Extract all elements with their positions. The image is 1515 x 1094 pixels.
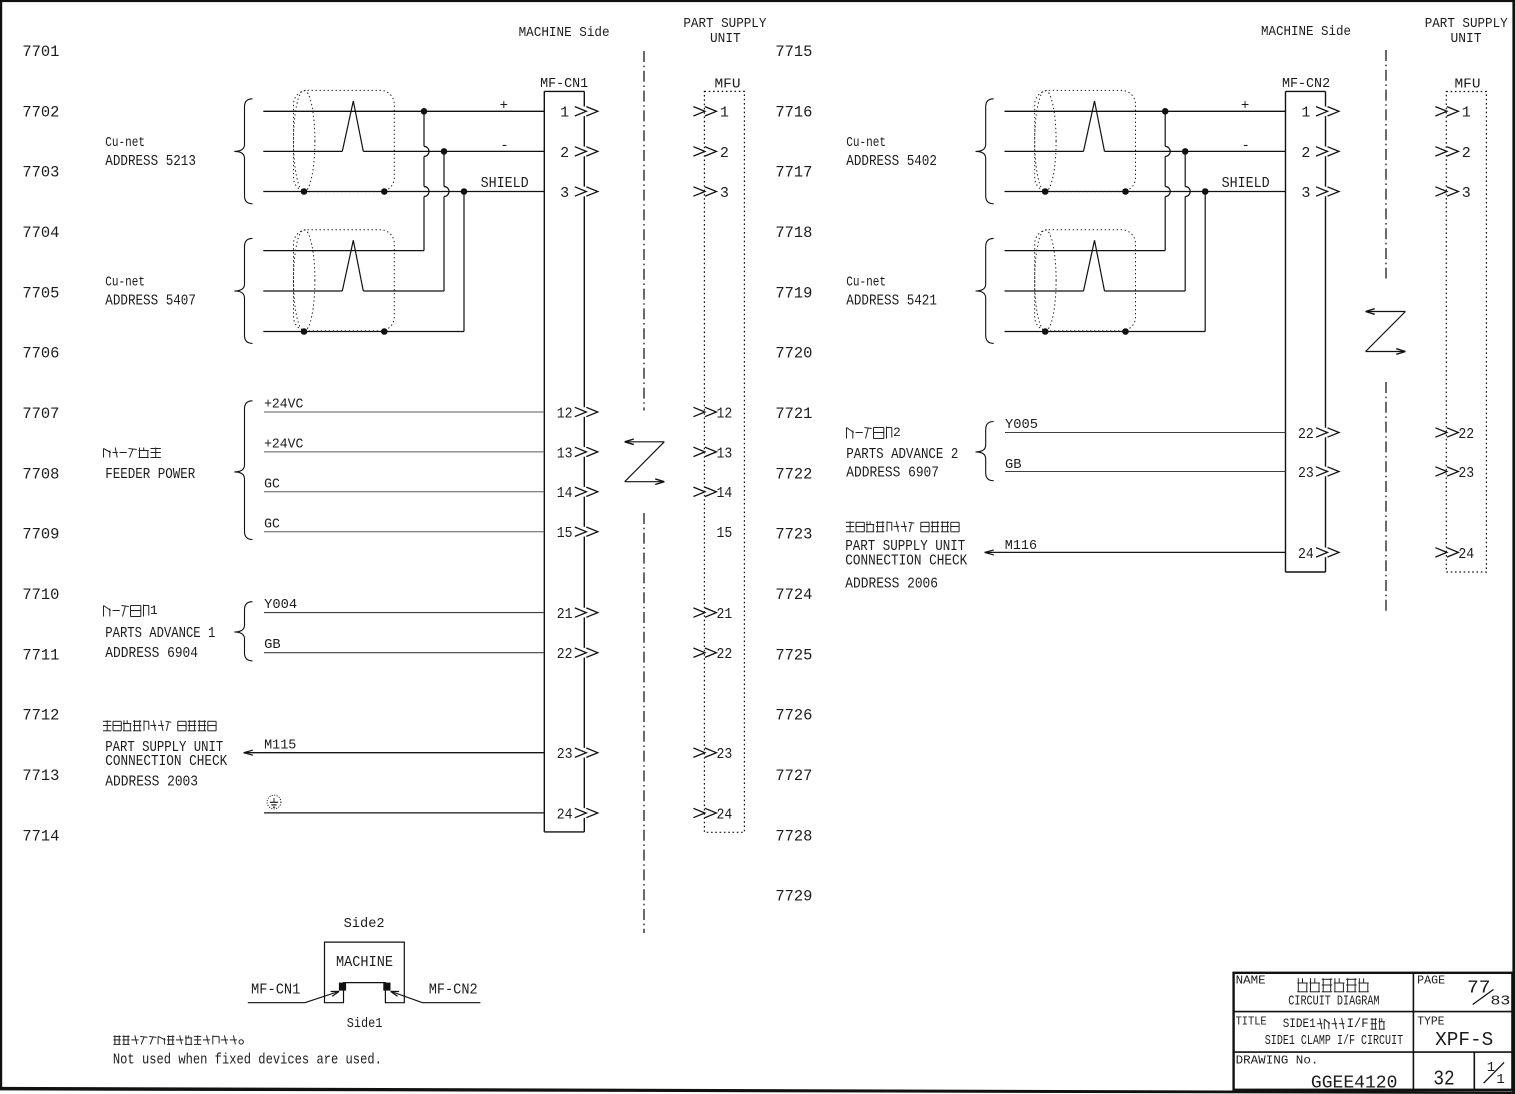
svg-text:I/F: I/F <box>1347 1017 1369 1031</box>
svg-text:22: 22 <box>1298 426 1314 443</box>
svg-text:7704: 7704 <box>22 224 59 242</box>
machine outline sketch <box>325 942 405 1003</box>
twisted-pair symbol of 5402 <box>1084 101 1105 151</box>
title block DRAWING No. <box>1236 1053 1319 1067</box>
label parts advance 1 (jp) <box>104 603 159 618</box>
svg-text:ADDRESS 2003: ADDRESS 2003 <box>105 774 198 790</box>
svg-text:7726: 7726 <box>775 707 812 725</box>
label Cu-net 5213 <box>105 136 196 170</box>
junction dot shield of 5402 <box>1202 188 1209 195</box>
header PART SUPPLY UNIT (right) <box>1425 17 1508 47</box>
MF-CN1 pin 1 <box>560 105 598 122</box>
line-number 7703 <box>22 164 59 182</box>
svg-text:24: 24 <box>557 806 573 823</box>
svg-text:MACHINE: MACHINE <box>336 954 393 971</box>
svg-text:+24VC: +24VC <box>264 397 303 413</box>
svg-text:13: 13 <box>717 445 733 462</box>
svg-text:1: 1 <box>150 603 158 618</box>
line-number 7706 <box>22 345 59 363</box>
title block SIDE1 CLAMP I/F CIRCUIT <box>1265 1033 1403 1049</box>
title block PAGE <box>1417 975 1445 988</box>
svg-text:Not used when fixed devices ar: Not used when fixed devices are used. <box>113 1053 382 1069</box>
svg-text:PART SUPPLY: PART SUPPLY <box>683 17 766 32</box>
line-number 7721 <box>775 405 812 423</box>
MFU pin 14 (left) <box>693 485 732 502</box>
svg-text:ADDRESS 5213: ADDRESS 5213 <box>105 154 196 170</box>
svg-text:1: 1 <box>1301 105 1310 122</box>
MFU pin 24 (right) <box>1435 546 1474 563</box>
label + (left) <box>500 98 508 114</box>
svg-text:SIDE1: SIDE1 <box>1283 1017 1316 1031</box>
line-number 7705 <box>22 284 59 302</box>
line-number 7719 <box>775 284 812 302</box>
svg-text:7720: 7720 <box>775 345 812 363</box>
svg-text:ADDRESS 6907: ADDRESS 6907 <box>846 465 939 481</box>
svg-text:7716: 7716 <box>775 103 812 121</box>
boundary line machine/part-supply (right, upper) <box>1385 50 1387 279</box>
svg-text:1: 1 <box>720 105 729 122</box>
svg-text:7718: 7718 <box>775 224 812 242</box>
line-number 7704 <box>22 224 59 242</box>
svg-text:-: - <box>1241 138 1249 154</box>
title block page number 77/83 <box>1467 979 1510 1010</box>
line-number 7708 <box>22 465 59 483</box>
wire - of 5213 <box>263 150 544 152</box>
svg-text:+24VC: +24VC <box>264 437 303 453</box>
line-number 7729 <box>775 888 812 906</box>
junction dot - of 5402 <box>1182 148 1189 155</box>
twisted-pair symbol of 5421 <box>1084 240 1105 291</box>
svg-text:Cu-net: Cu-net <box>105 136 145 151</box>
svg-text:23: 23 <box>1458 465 1474 482</box>
wire + of 5402 <box>1005 110 1286 112</box>
svg-text:UNIT: UNIT <box>1451 32 1482 47</box>
svg-text:3: 3 <box>720 185 729 202</box>
line-number 7717 <box>775 164 812 182</box>
svg-text:ADDRESS 5402: ADDRESS 5402 <box>846 154 937 170</box>
wire Y004 pin 21 <box>264 597 544 613</box>
label ADDRESS 6904 <box>105 646 198 662</box>
cable end dots of 5402 <box>1042 188 1129 195</box>
svg-text:23: 23 <box>717 746 733 763</box>
wire GB pin 22 (left) <box>264 637 544 653</box>
svg-text:7722: 7722 <box>775 465 812 483</box>
wire - of 5407 <box>263 290 444 292</box>
svg-text:7721: 7721 <box>775 405 812 423</box>
wire +24VC pin 12 <box>264 397 544 413</box>
svg-text:22: 22 <box>557 646 573 663</box>
wire + of 5407 <box>263 250 424 252</box>
MFU pin 1 (right) <box>1435 105 1470 122</box>
MF-CN1 pin 21 <box>557 606 598 623</box>
svg-text:22: 22 <box>1458 426 1474 443</box>
label Cu-net 5421 <box>846 276 937 310</box>
svg-text:1: 1 <box>1462 105 1471 122</box>
MF-CN1 pin 13 <box>557 445 598 462</box>
line-number 7711 <box>22 646 59 664</box>
svg-text:1: 1 <box>560 105 569 122</box>
MF-CN1 pin 22 <box>557 646 598 663</box>
cable shield outline of 5421 <box>1035 230 1136 331</box>
svg-text:CONNECTION CHECK: CONNECTION CHECK <box>105 754 227 770</box>
wire vertical + link (right) <box>1165 111 1170 250</box>
line-number 7710 <box>22 586 59 604</box>
svg-text:Side1: Side1 <box>347 1016 383 1032</box>
svg-text:83: 83 <box>1491 994 1511 1010</box>
line-number 7707 <box>22 405 59 423</box>
label MF-CN1 (sketch) <box>251 982 300 999</box>
svg-text:12: 12 <box>717 405 733 422</box>
connector square MF-CN2 (sketch) <box>383 983 390 991</box>
label part supply unit connection check (jp, right) <box>846 521 959 532</box>
svg-text:CONNECTION CHECK: CONNECTION CHECK <box>845 553 967 569</box>
label SHIELD (right) <box>1222 176 1270 192</box>
label - (left) <box>500 138 508 154</box>
junction dot + of 5213 <box>421 108 428 115</box>
svg-text:Cu-net: Cu-net <box>105 276 145 291</box>
svg-text:15: 15 <box>717 525 733 542</box>
svg-text:MACHINE Side: MACHINE Side <box>519 26 610 41</box>
svg-text:14: 14 <box>557 485 573 502</box>
MFU pin 15 (left) <box>717 525 733 542</box>
cable end dots of 5407 <box>301 328 388 335</box>
svg-text:2: 2 <box>720 145 729 162</box>
svg-text:7729: 7729 <box>775 888 812 906</box>
svg-text:ADDRESS 6904: ADDRESS 6904 <box>105 646 198 662</box>
label Cu-net 5402 <box>846 136 937 170</box>
break symbol Z (right) <box>1366 309 1406 355</box>
svg-text:7714: 7714 <box>22 827 59 845</box>
wire M115 pin 23 <box>244 737 545 755</box>
MF-CN2 pin 22 <box>1298 426 1339 443</box>
label parts advance 2 (jp) <box>847 425 901 440</box>
label Side1 <box>347 1016 383 1032</box>
line-number 7702 <box>22 103 59 121</box>
svg-text:7708: 7708 <box>22 465 59 483</box>
svg-text:PARTS ADVANCE 1: PARTS ADVANCE 1 <box>105 626 215 642</box>
MFU pin 21 (left) <box>693 606 732 623</box>
svg-text:24: 24 <box>717 806 733 823</box>
svg-text:MF-CN2: MF-CN2 <box>429 982 478 999</box>
svg-text:GB: GB <box>1005 457 1022 473</box>
wire M116 pin 24 <box>985 538 1286 555</box>
label CONNECTION CHECK (right) <box>845 553 967 569</box>
MFU pin 24 (left) <box>693 806 732 823</box>
note fixed devices (jp) <box>113 1035 243 1044</box>
cable shield outline of 5407 <box>294 230 395 331</box>
svg-text:ADDRESS 2006: ADDRESS 2006 <box>845 576 938 592</box>
svg-text:7717: 7717 <box>775 164 812 182</box>
svg-text:7702: 7702 <box>22 103 59 121</box>
cable end dots of 5213 <box>301 188 388 195</box>
svg-text:7728: 7728 <box>775 827 812 845</box>
label ADDRESS 6907 <box>846 465 939 481</box>
leader line MF-CN1 (sketch) <box>248 991 339 1002</box>
MFU pin 22 (left) <box>693 646 732 663</box>
label ADDRESS 2003 <box>105 774 198 790</box>
wire GC pin 15 <box>264 516 544 532</box>
svg-text:M115: M115 <box>264 737 296 753</box>
label ADDRESS 2006 <box>845 576 938 592</box>
svg-text:XPF-S: XPF-S <box>1435 1029 1493 1051</box>
svg-text:Cu-net: Cu-net <box>846 136 886 151</box>
svg-text:7707: 7707 <box>22 405 59 423</box>
wire vertical shield link (left) <box>463 192 465 332</box>
wire +24VC pin 13 <box>264 437 544 453</box>
svg-text:21: 21 <box>557 606 573 623</box>
MFU pin 13 (left) <box>693 445 732 462</box>
cable end dots of 5421 <box>1042 328 1129 335</box>
title block XPF-S <box>1435 1029 1493 1051</box>
title block TYPE <box>1417 1016 1444 1029</box>
svg-text:77: 77 <box>1467 979 1491 999</box>
brace Cu-net 5213 <box>234 99 252 204</box>
junction dot + of 5402 <box>1162 108 1169 115</box>
wire shield of 5407 <box>263 331 464 333</box>
MF-CN1 pin 23 <box>557 746 598 763</box>
svg-text:PARTS ADVANCE 2: PARTS ADVANCE 2 <box>846 447 958 463</box>
MF-CN2 pin 2 <box>1301 145 1339 162</box>
label CONNECTION CHECK (left) <box>105 754 227 770</box>
svg-text:15: 15 <box>557 525 573 542</box>
wire shield of 5421 <box>1005 331 1206 333</box>
svg-text:23: 23 <box>557 746 573 763</box>
svg-text:12: 12 <box>557 405 573 422</box>
svg-text:23: 23 <box>1298 465 1314 482</box>
MF-CN1 pin 2 <box>560 145 598 162</box>
svg-text:SHIELD: SHIELD <box>1222 176 1270 192</box>
line-number 7701 <box>22 43 59 61</box>
title block circuit diagram (jp) <box>1297 978 1369 992</box>
MFU pin 3 (right) <box>1435 185 1470 202</box>
svg-text:1: 1 <box>1496 1072 1504 1088</box>
line-number 7726 <box>775 707 812 725</box>
label - (right) <box>1241 138 1249 154</box>
line-number 7712 <box>22 707 59 725</box>
line-number 7715 <box>775 43 812 61</box>
line-number 7716 <box>775 103 812 121</box>
MF-CN2 pin 23 <box>1298 465 1339 482</box>
svg-text:13: 13 <box>557 445 573 462</box>
svg-text:SIDE1 CLAMP I/F CIRCUIT: SIDE1 CLAMP I/F CIRCUIT <box>1265 1033 1403 1049</box>
wire Y005 pin 22 <box>1005 417 1286 433</box>
svg-text:7709: 7709 <box>22 526 59 544</box>
connector square MF-CN1 (sketch) <box>339 983 346 991</box>
MFU pin 12 (left) <box>693 405 732 422</box>
svg-text:7712: 7712 <box>22 707 59 725</box>
label PART SUPPLY UNIT (left) <box>105 740 223 756</box>
title block TITLE <box>1236 1016 1267 1029</box>
brace Cu-net 5407 <box>234 238 252 343</box>
brace Cu-net 5421 <box>976 238 994 343</box>
svg-text:CIRCUIT DIAGRAM: CIRCUIT DIAGRAM <box>1288 994 1379 1010</box>
svg-text:7724: 7724 <box>775 586 812 604</box>
line-number 7720 <box>775 345 812 363</box>
svg-text:MFU: MFU <box>1455 77 1481 93</box>
svg-text:7706: 7706 <box>22 345 59 363</box>
label + (right) <box>1241 98 1249 114</box>
MFU pin 22 (right) <box>1435 426 1474 443</box>
svg-text:FEEDER POWER: FEEDER POWER <box>105 467 195 483</box>
svg-text:3: 3 <box>560 185 569 202</box>
MFU pin 2 (left) <box>693 145 729 162</box>
svg-text:24: 24 <box>1458 546 1474 563</box>
MFU pin 23 (right) <box>1435 465 1474 482</box>
header MACHINE Side (left) <box>519 26 610 41</box>
svg-text:2: 2 <box>1462 145 1471 162</box>
label MACHINE (sketch) <box>336 954 393 971</box>
wire vertical - link (right) <box>1185 151 1190 291</box>
svg-text:Side2: Side2 <box>344 916 385 932</box>
title block NAME <box>1236 975 1266 988</box>
line-number 7709 <box>22 526 59 544</box>
wire + of 5421 <box>1005 250 1166 252</box>
label PARTS ADVANCE 1 <box>105 626 215 642</box>
title block title (jp) <box>1283 1017 1385 1031</box>
wire vertical shield link (right) <box>1204 192 1206 332</box>
label Cu-net 5407 <box>105 276 196 310</box>
MF-CN1 pin 3 <box>560 185 598 202</box>
boundary line machine/part-supply (left, upper) <box>643 51 645 411</box>
line-number 7724 <box>775 586 812 604</box>
wire GB pin 23 (right) <box>1005 457 1286 473</box>
wire vertical - link (left) <box>444 151 449 291</box>
cable shield outline of 5402 <box>1035 90 1136 191</box>
svg-text:+: + <box>1241 98 1249 114</box>
svg-text:TYPE: TYPE <box>1417 1016 1444 1029</box>
brace parts advance 1 <box>234 602 252 661</box>
svg-text:GC: GC <box>264 516 280 532</box>
wire vertical + link (left) <box>424 111 429 250</box>
svg-text:7705: 7705 <box>22 284 59 302</box>
brace parts advance 2 <box>976 422 994 481</box>
label PARTS ADVANCE 2 <box>846 447 958 463</box>
svg-text:2: 2 <box>893 425 901 440</box>
svg-text:32: 32 <box>1433 1069 1454 1092</box>
header PART SUPPLY UNIT (left) <box>683 17 766 47</box>
boundary line machine/part-supply (left, lower) <box>643 513 645 933</box>
MF-CN1 pin 12 <box>557 405 598 422</box>
line-number 7722 <box>775 465 812 483</box>
connector MF-CN2 body <box>1286 91 1326 572</box>
label Side2 <box>344 916 385 932</box>
svg-text:ADDRESS 5407: ADDRESS 5407 <box>105 294 196 310</box>
connector MF-CN2 label <box>1282 76 1330 92</box>
line-number 7713 <box>22 767 59 785</box>
svg-text:21: 21 <box>717 606 733 623</box>
svg-text:MF-CN2: MF-CN2 <box>1282 76 1330 92</box>
cable shield outline of 5213 <box>294 90 395 191</box>
MF-CN2 pin 1 <box>1301 105 1339 122</box>
label SHIELD (left) <box>481 176 529 192</box>
ground symbol (protective earth) <box>267 795 281 809</box>
line-number 7725 <box>775 646 812 664</box>
connector MFU body (right) <box>1446 92 1486 573</box>
wire - of 5421 <box>1005 290 1186 292</box>
svg-text:7703: 7703 <box>22 164 59 182</box>
wire + of 5213 <box>263 110 544 112</box>
wire shield of 5213 <box>263 191 544 193</box>
svg-text:GGEE4120: GGEE4120 <box>1311 1073 1398 1093</box>
note Not used when fixed devices are used. <box>113 1053 382 1069</box>
label part supply unit connection check (jp, left) <box>103 720 216 731</box>
title block CIRCUIT DIAGRAM <box>1288 994 1379 1010</box>
svg-text:Y004: Y004 <box>264 597 297 613</box>
svg-text:ADDRESS 5421: ADDRESS 5421 <box>846 294 937 310</box>
MF-CN2 pin 24 <box>1298 546 1339 563</box>
line-number 7728 <box>775 827 812 845</box>
svg-text:7723: 7723 <box>775 526 812 544</box>
brace Cu-net 5402 <box>976 99 994 204</box>
label FEEDER POWER <box>105 467 195 483</box>
label feeder power (jp) <box>104 448 161 458</box>
svg-text:7713: 7713 <box>22 767 59 785</box>
line-number 7714 <box>22 827 59 845</box>
svg-text:UNIT: UNIT <box>710 32 741 47</box>
svg-text:24: 24 <box>1298 546 1314 563</box>
svg-text:14: 14 <box>717 485 733 502</box>
header MACHINE Side (right) <box>1261 25 1351 40</box>
wire - of 5402 <box>1005 150 1286 152</box>
line-number 7723 <box>775 526 812 544</box>
svg-text:NAME: NAME <box>1236 975 1266 988</box>
boundary line machine/part-supply (right, lower) <box>1385 382 1387 611</box>
svg-text:Y005: Y005 <box>1005 417 1038 433</box>
connector MFU label (left) <box>715 77 741 93</box>
svg-text:+: + <box>500 98 508 114</box>
MFU pin 2 (right) <box>1435 145 1470 162</box>
MF-CN1 pin 14 <box>557 485 598 502</box>
svg-text:3: 3 <box>1462 185 1471 202</box>
svg-text:-: - <box>500 138 508 154</box>
label PART SUPPLY UNIT (right) <box>845 539 965 555</box>
MFU pin 1 (left) <box>693 105 729 122</box>
svg-text:GC: GC <box>264 476 280 492</box>
svg-text:7710: 7710 <box>22 586 59 604</box>
junction dot shield of 5213 <box>461 188 468 195</box>
junction dot - of 5213 <box>441 148 448 155</box>
svg-text:MF-CN1: MF-CN1 <box>540 76 588 92</box>
svg-text:DRAWING No.: DRAWING No. <box>1236 1053 1319 1067</box>
svg-text:2: 2 <box>560 145 569 162</box>
svg-text:7725: 7725 <box>775 646 812 664</box>
MFU pin 3 (left) <box>693 185 729 202</box>
connector MFU label (right) <box>1455 77 1481 93</box>
label MF-CN2 (sketch) <box>429 982 478 999</box>
svg-text:7715: 7715 <box>775 43 812 61</box>
svg-text:GB: GB <box>264 637 281 653</box>
svg-text:TITLE: TITLE <box>1236 1016 1267 1029</box>
MFU pin 23 (left) <box>693 746 732 763</box>
MF-CN1 pin 15 <box>557 525 598 542</box>
svg-text:3: 3 <box>1301 185 1310 202</box>
svg-text:MACHINE Side: MACHINE Side <box>1261 25 1351 40</box>
twisted-pair symbol of 5407 <box>342 240 363 291</box>
svg-text:7701: 7701 <box>22 43 59 61</box>
svg-text:PAGE: PAGE <box>1417 975 1445 988</box>
line-number 7727 <box>775 767 812 785</box>
line-number 7718 <box>775 224 812 242</box>
wire shield of 5402 <box>1005 191 1286 193</box>
brace feeder power <box>234 401 252 540</box>
svg-text:PART SUPPLY: PART SUPPLY <box>1425 17 1508 32</box>
svg-text:22: 22 <box>717 646 733 663</box>
twisted-pair symbol of 5213 <box>342 101 363 151</box>
svg-text:MFU: MFU <box>715 77 741 93</box>
title block frame <box>1233 972 1512 1090</box>
svg-text:MF-CN1: MF-CN1 <box>251 982 300 999</box>
svg-text:SHIELD: SHIELD <box>481 176 529 192</box>
